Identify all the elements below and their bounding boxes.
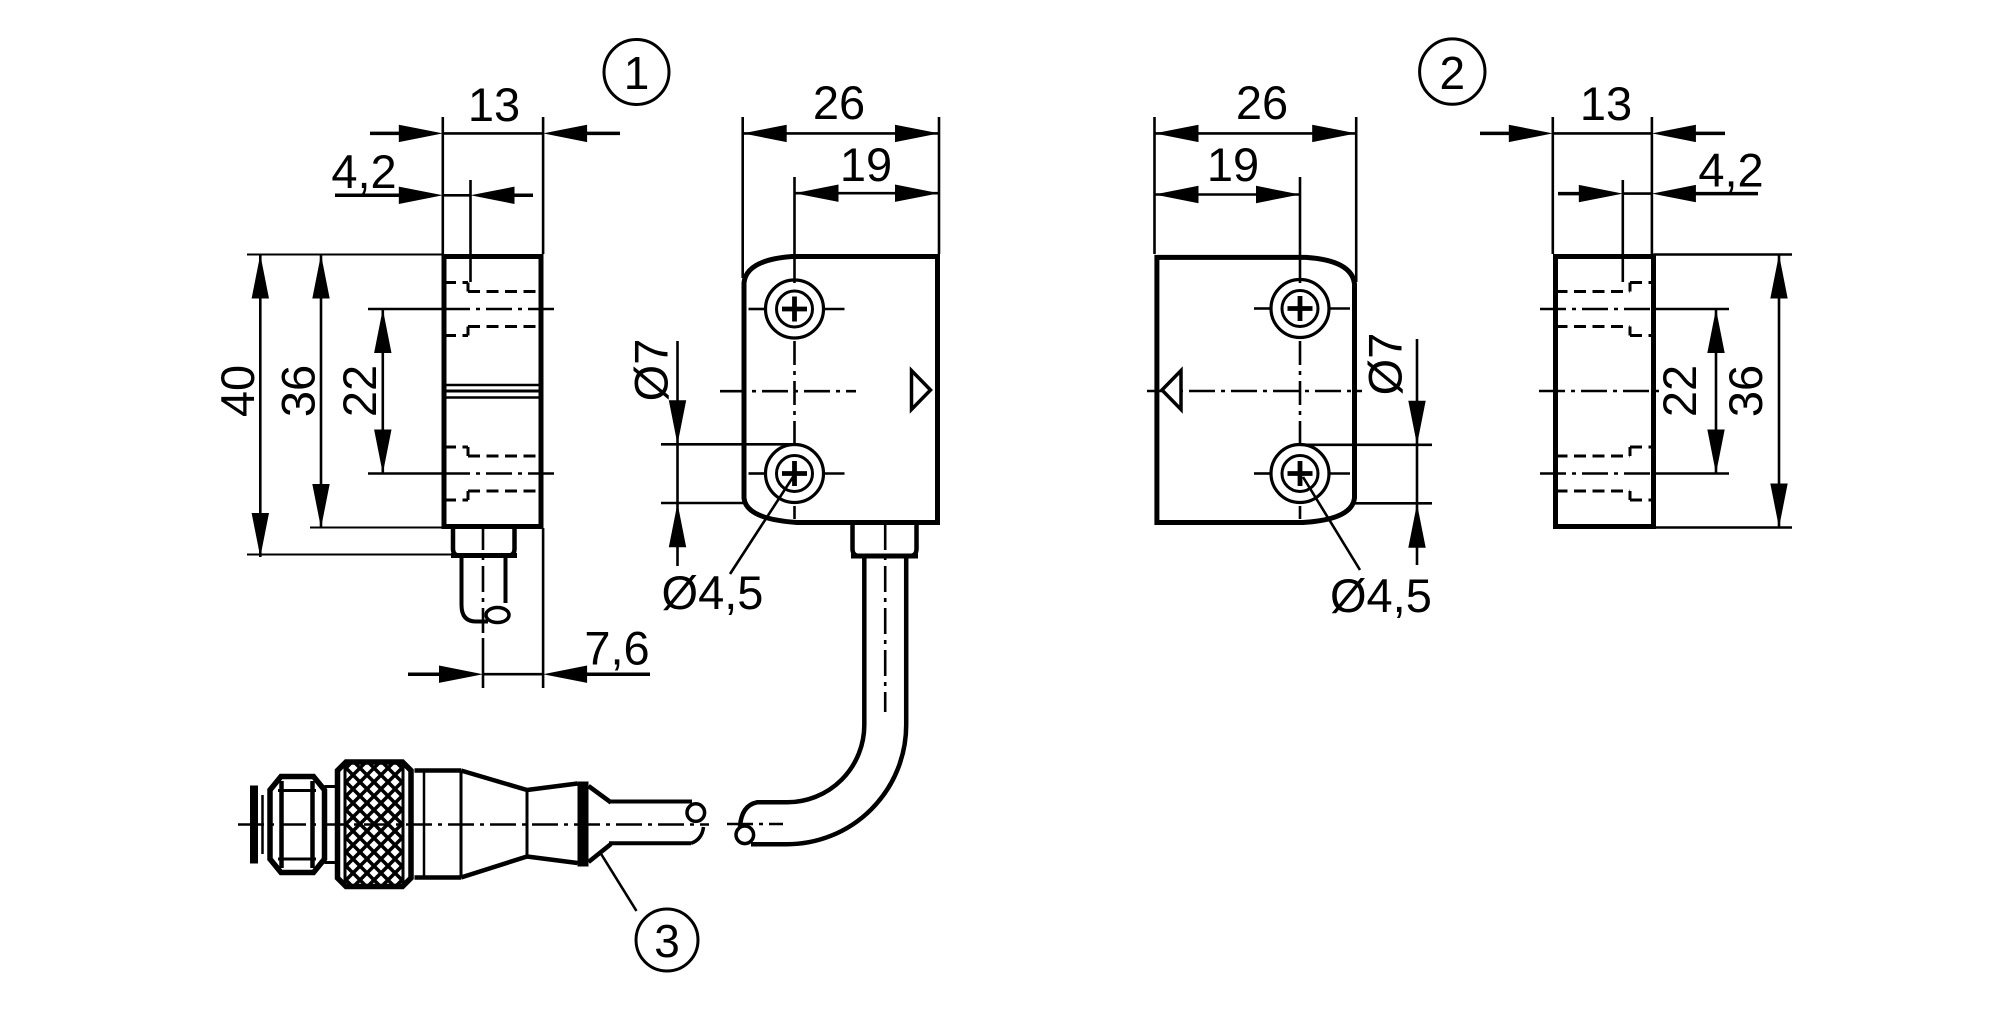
svg-text:7,6: 7,6 [584, 622, 649, 675]
svg-text:Ø7: Ø7 [625, 339, 678, 402]
svg-text:2: 2 [1440, 47, 1466, 99]
svg-text:40: 40 [211, 365, 264, 417]
svg-text:13: 13 [1580, 77, 1632, 130]
svg-text:26: 26 [813, 76, 865, 129]
svg-text:22: 22 [333, 365, 386, 417]
svg-text:4,2: 4,2 [331, 145, 396, 198]
svg-text:26: 26 [1236, 76, 1288, 129]
svg-text:13: 13 [468, 78, 520, 131]
svg-text:19: 19 [840, 138, 892, 191]
svg-text:36: 36 [272, 365, 325, 417]
svg-text:3: 3 [654, 915, 680, 967]
svg-text:19: 19 [1207, 138, 1259, 191]
svg-text:22: 22 [1653, 365, 1706, 417]
svg-text:Ø4,5: Ø4,5 [662, 566, 764, 619]
svg-text:Ø7: Ø7 [1359, 333, 1412, 396]
svg-text:1: 1 [624, 47, 650, 99]
svg-text:4,2: 4,2 [1698, 144, 1763, 197]
svg-text:Ø4,5: Ø4,5 [1330, 569, 1432, 622]
svg-text:36: 36 [1719, 365, 1772, 417]
